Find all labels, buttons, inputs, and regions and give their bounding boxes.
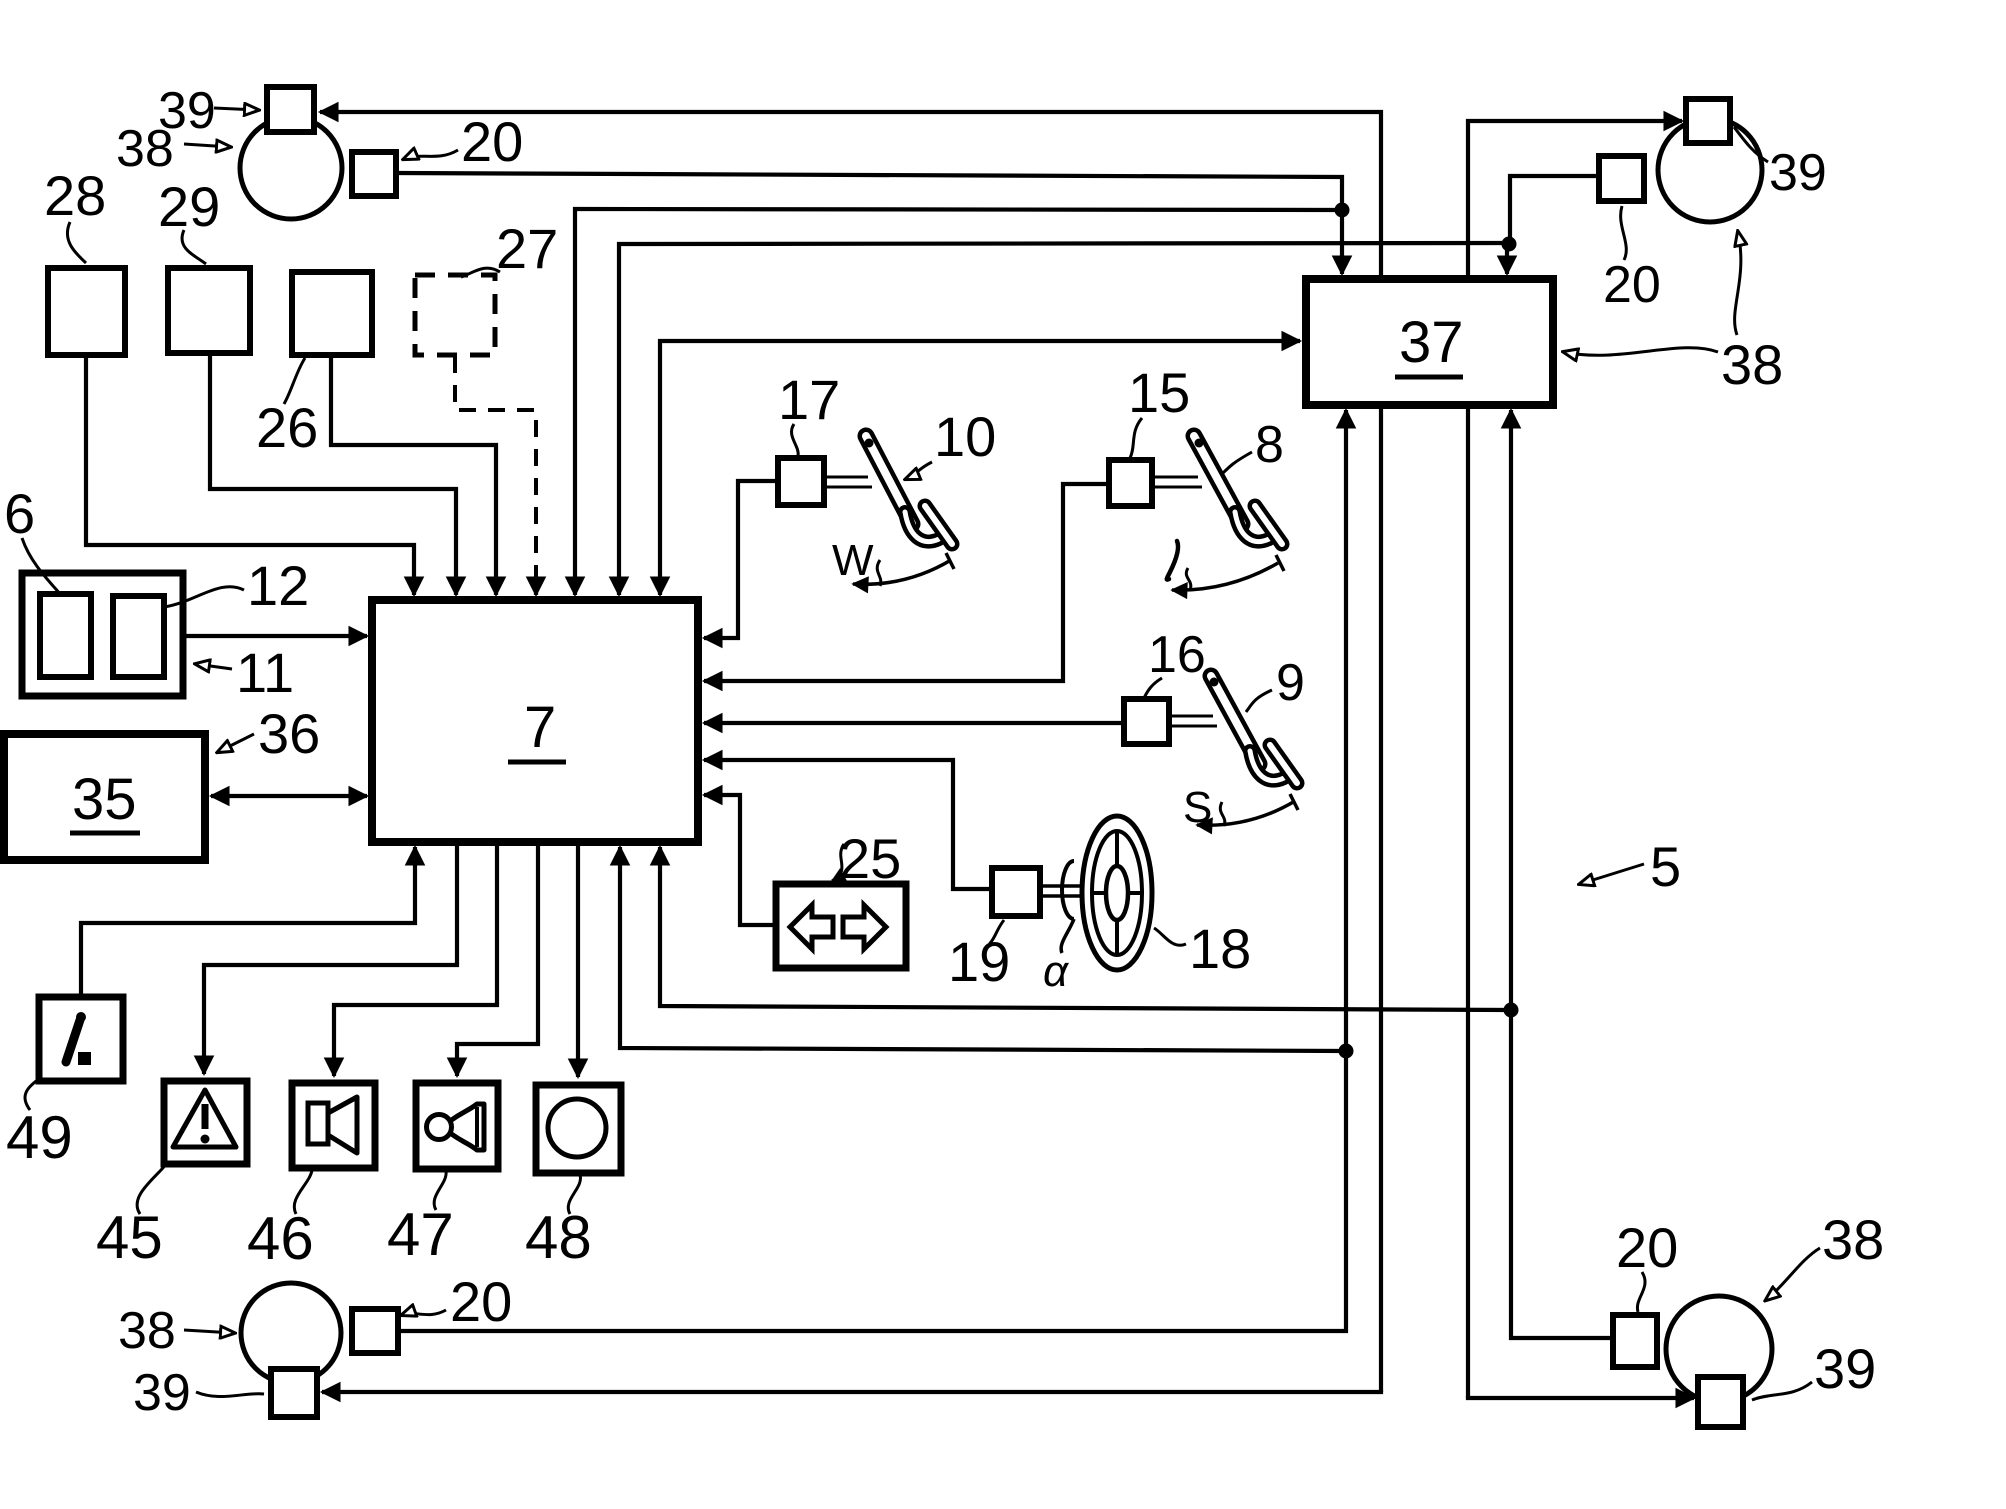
svg-text:20: 20 <box>1603 256 1661 314</box>
rear-left brake actuator 39 <box>271 1369 317 1417</box>
node junction rear-right sensor branch <box>1504 1003 1519 1018</box>
pedal angle arc W <box>853 560 951 584</box>
svg-text:12: 12 <box>247 554 309 617</box>
svg-text:W: W <box>832 536 874 585</box>
wire branch from front-left sensor junction to box 7 top <box>575 209 1342 595</box>
wire box 7 to warning lamp 45 <box>204 846 457 1074</box>
horn box 47 <box>416 1083 498 1169</box>
svg-text:16: 16 <box>1148 626 1206 684</box>
svg-text:20: 20 <box>461 110 523 173</box>
wire box 7 to lamp 48 <box>576 846 580 1077</box>
svg-text:47: 47 <box>387 1201 454 1268</box>
wire accelerator sensor 17 to box 7 right <box>704 481 779 638</box>
sensor box 26 <box>292 272 372 355</box>
svg-text:19: 19 <box>948 930 1010 993</box>
svg-text:38: 38 <box>116 120 174 178</box>
switch 49 lever icon <box>66 1020 80 1062</box>
display unit box 11 <box>22 573 183 696</box>
turn-signal left block arrow <box>790 905 833 949</box>
label 38 leader to box 37 <box>1564 348 1718 356</box>
wire branch rear-right sensor to box 7 bottom <box>660 847 1511 1010</box>
wire turn-signal switch 25 to box 7 right <box>704 795 776 925</box>
svg-text:10: 10 <box>934 405 996 468</box>
svg-text:38: 38 <box>1721 333 1783 396</box>
node junction rear-left sensor branch <box>1339 1044 1354 1059</box>
accelerator pedal 10 assembly <box>824 436 952 544</box>
switch box 49 <box>39 997 123 1081</box>
wire box 26 to box 7 top <box>331 356 496 595</box>
svg-text:27: 27 <box>496 217 558 280</box>
svg-text:28: 28 <box>44 164 106 227</box>
wire rear-left speed sensor 20 to box 37 bottom <box>398 410 1346 1331</box>
wire clutch sensor 16 to box 7 right <box>704 721 1124 725</box>
steering shaft <box>1040 884 1084 888</box>
pedal angle arc S <box>1197 801 1295 825</box>
svg-text:α: α <box>1043 947 1070 996</box>
wire brake line 37 to front-left actuator 39 (passes behind box 37) <box>320 112 1381 1392</box>
front-right brake actuator 39 <box>1686 99 1730 143</box>
svg-text:46: 46 <box>247 1205 314 1272</box>
front-right speed sensor 20 <box>1599 156 1644 201</box>
svg-text:35: 35 <box>72 767 137 832</box>
svg-text:39: 39 <box>1814 1337 1876 1400</box>
accelerator pedal sensor 17 <box>778 458 824 505</box>
wire brake line 37 to rear-right actuator 39 (lower run) <box>1468 1396 1694 1398</box>
svg-text:17: 17 <box>778 368 840 431</box>
svg-text:S: S <box>1183 783 1212 832</box>
wire switch 49 to box 7 bottom <box>81 847 415 997</box>
svg-text:37: 37 <box>1399 310 1464 375</box>
wire box 7 to speaker 46 <box>334 846 497 1076</box>
svg-text:36: 36 <box>258 702 320 765</box>
display segment 12 <box>113 596 164 677</box>
svg-text:9: 9 <box>1276 654 1305 712</box>
control unit box 37 <box>1306 279 1553 405</box>
svg-text:39: 39 <box>133 1364 191 1422</box>
rear-right brake actuator 39 <box>1698 1377 1743 1427</box>
svg-text:25: 25 <box>839 827 901 890</box>
svg-text:6: 6 <box>4 482 35 545</box>
wire front-right speed sensor 20 to box 37 top <box>1507 176 1599 274</box>
svg-text:20: 20 <box>1616 1216 1678 1279</box>
svg-text:49: 49 <box>6 1104 73 1171</box>
node junction front-left sensor branch <box>1335 203 1350 218</box>
warning lamp box 45 <box>164 1081 247 1164</box>
svg-text:38: 38 <box>118 1302 176 1360</box>
wire branch rear-left sensor to box 7 bottom <box>620 847 1346 1051</box>
brake pedal sensor 15 <box>1109 460 1152 506</box>
wire bidirectional link box 7 to box 37 <box>660 341 1300 595</box>
wire box 7 to horn 47 <box>457 846 538 1076</box>
wire display unit 11 to box 7 left <box>184 634 367 638</box>
memory box 35 <box>4 734 205 860</box>
svg-text:15: 15 <box>1128 361 1190 424</box>
svg-text:5: 5 <box>1650 835 1681 898</box>
wire steering sensor 19 to box 7 right <box>704 760 992 889</box>
lamp circle icon <box>548 1099 606 1157</box>
clutch pedal sensor 16 <box>1124 699 1169 744</box>
label L <box>1167 541 1178 580</box>
speaker box 46 <box>292 1083 375 1168</box>
wire brake line 37 to front-right actuator 39 (passes behind box 37) <box>1468 121 1682 1398</box>
lamp box 48 <box>536 1085 621 1173</box>
node junction front-right sensor branch <box>1502 237 1517 252</box>
front-left brake actuator 39 <box>267 87 314 132</box>
front-left speed sensor 20 <box>352 152 396 196</box>
svg-text:8: 8 <box>1255 416 1284 474</box>
wire memory 35 to box 7 bidirectional <box>211 794 367 798</box>
control unit box 7 <box>372 600 698 842</box>
display segment 6 <box>40 594 91 677</box>
wire branch from front-right sensor junction to box 7 top <box>619 243 1508 595</box>
svg-text:45: 45 <box>96 1204 163 1271</box>
wire brake sensor 15 to box 7 right <box>704 484 1109 681</box>
warning triangle icon <box>173 1090 236 1147</box>
brake pedal 8 assembly <box>1152 436 1282 544</box>
turn-signal switch box 25 <box>776 884 906 968</box>
pedal angle arc L <box>1172 563 1278 590</box>
sensor box 28 <box>48 268 125 355</box>
steering wheel 18 <box>1082 816 1152 970</box>
wire brake line 37 to rear-left actuator 39 (lower run) <box>322 1390 1381 1392</box>
wire dashed box 27 to box 7 top <box>455 356 536 584</box>
svg-text:48: 48 <box>525 1204 592 1271</box>
wire box 28 to box 7 top <box>86 356 414 595</box>
front-left wheel 38 <box>240 117 342 219</box>
optional sensor box 27 (dashed) <box>415 275 495 355</box>
svg-text:11: 11 <box>236 641 294 704</box>
rear-left speed sensor 20 <box>352 1309 398 1353</box>
speaker icon <box>308 1103 328 1144</box>
rotation symbol alpha loop <box>1062 861 1074 919</box>
svg-text:26: 26 <box>256 396 318 459</box>
rear-left wheel 38 <box>241 1283 341 1383</box>
wire rear-right speed sensor 20 to box 37 bottom <box>1511 410 1613 1338</box>
horn icon <box>427 1115 452 1140</box>
front-right wheel 38 <box>1658 118 1762 222</box>
svg-text:39: 39 <box>1769 144 1827 202</box>
svg-text:7: 7 <box>524 695 556 760</box>
wire front-left speed sensor 20 to box 37 top <box>396 173 1342 274</box>
svg-text:38: 38 <box>1822 1208 1884 1271</box>
sensor box 29 <box>168 268 250 353</box>
rear-right wheel 38 <box>1666 1296 1772 1402</box>
clutch pedal 9 assembly <box>1169 676 1297 783</box>
svg-text:29: 29 <box>158 175 220 238</box>
rear-right speed sensor 20 <box>1613 1315 1657 1367</box>
svg-text:20: 20 <box>450 1270 512 1333</box>
svg-text:18: 18 <box>1189 917 1251 980</box>
wire box 29 to box 7 top <box>210 354 456 595</box>
steering angle sensor 19 <box>992 868 1040 916</box>
turn-signal right block arrow <box>843 905 886 949</box>
